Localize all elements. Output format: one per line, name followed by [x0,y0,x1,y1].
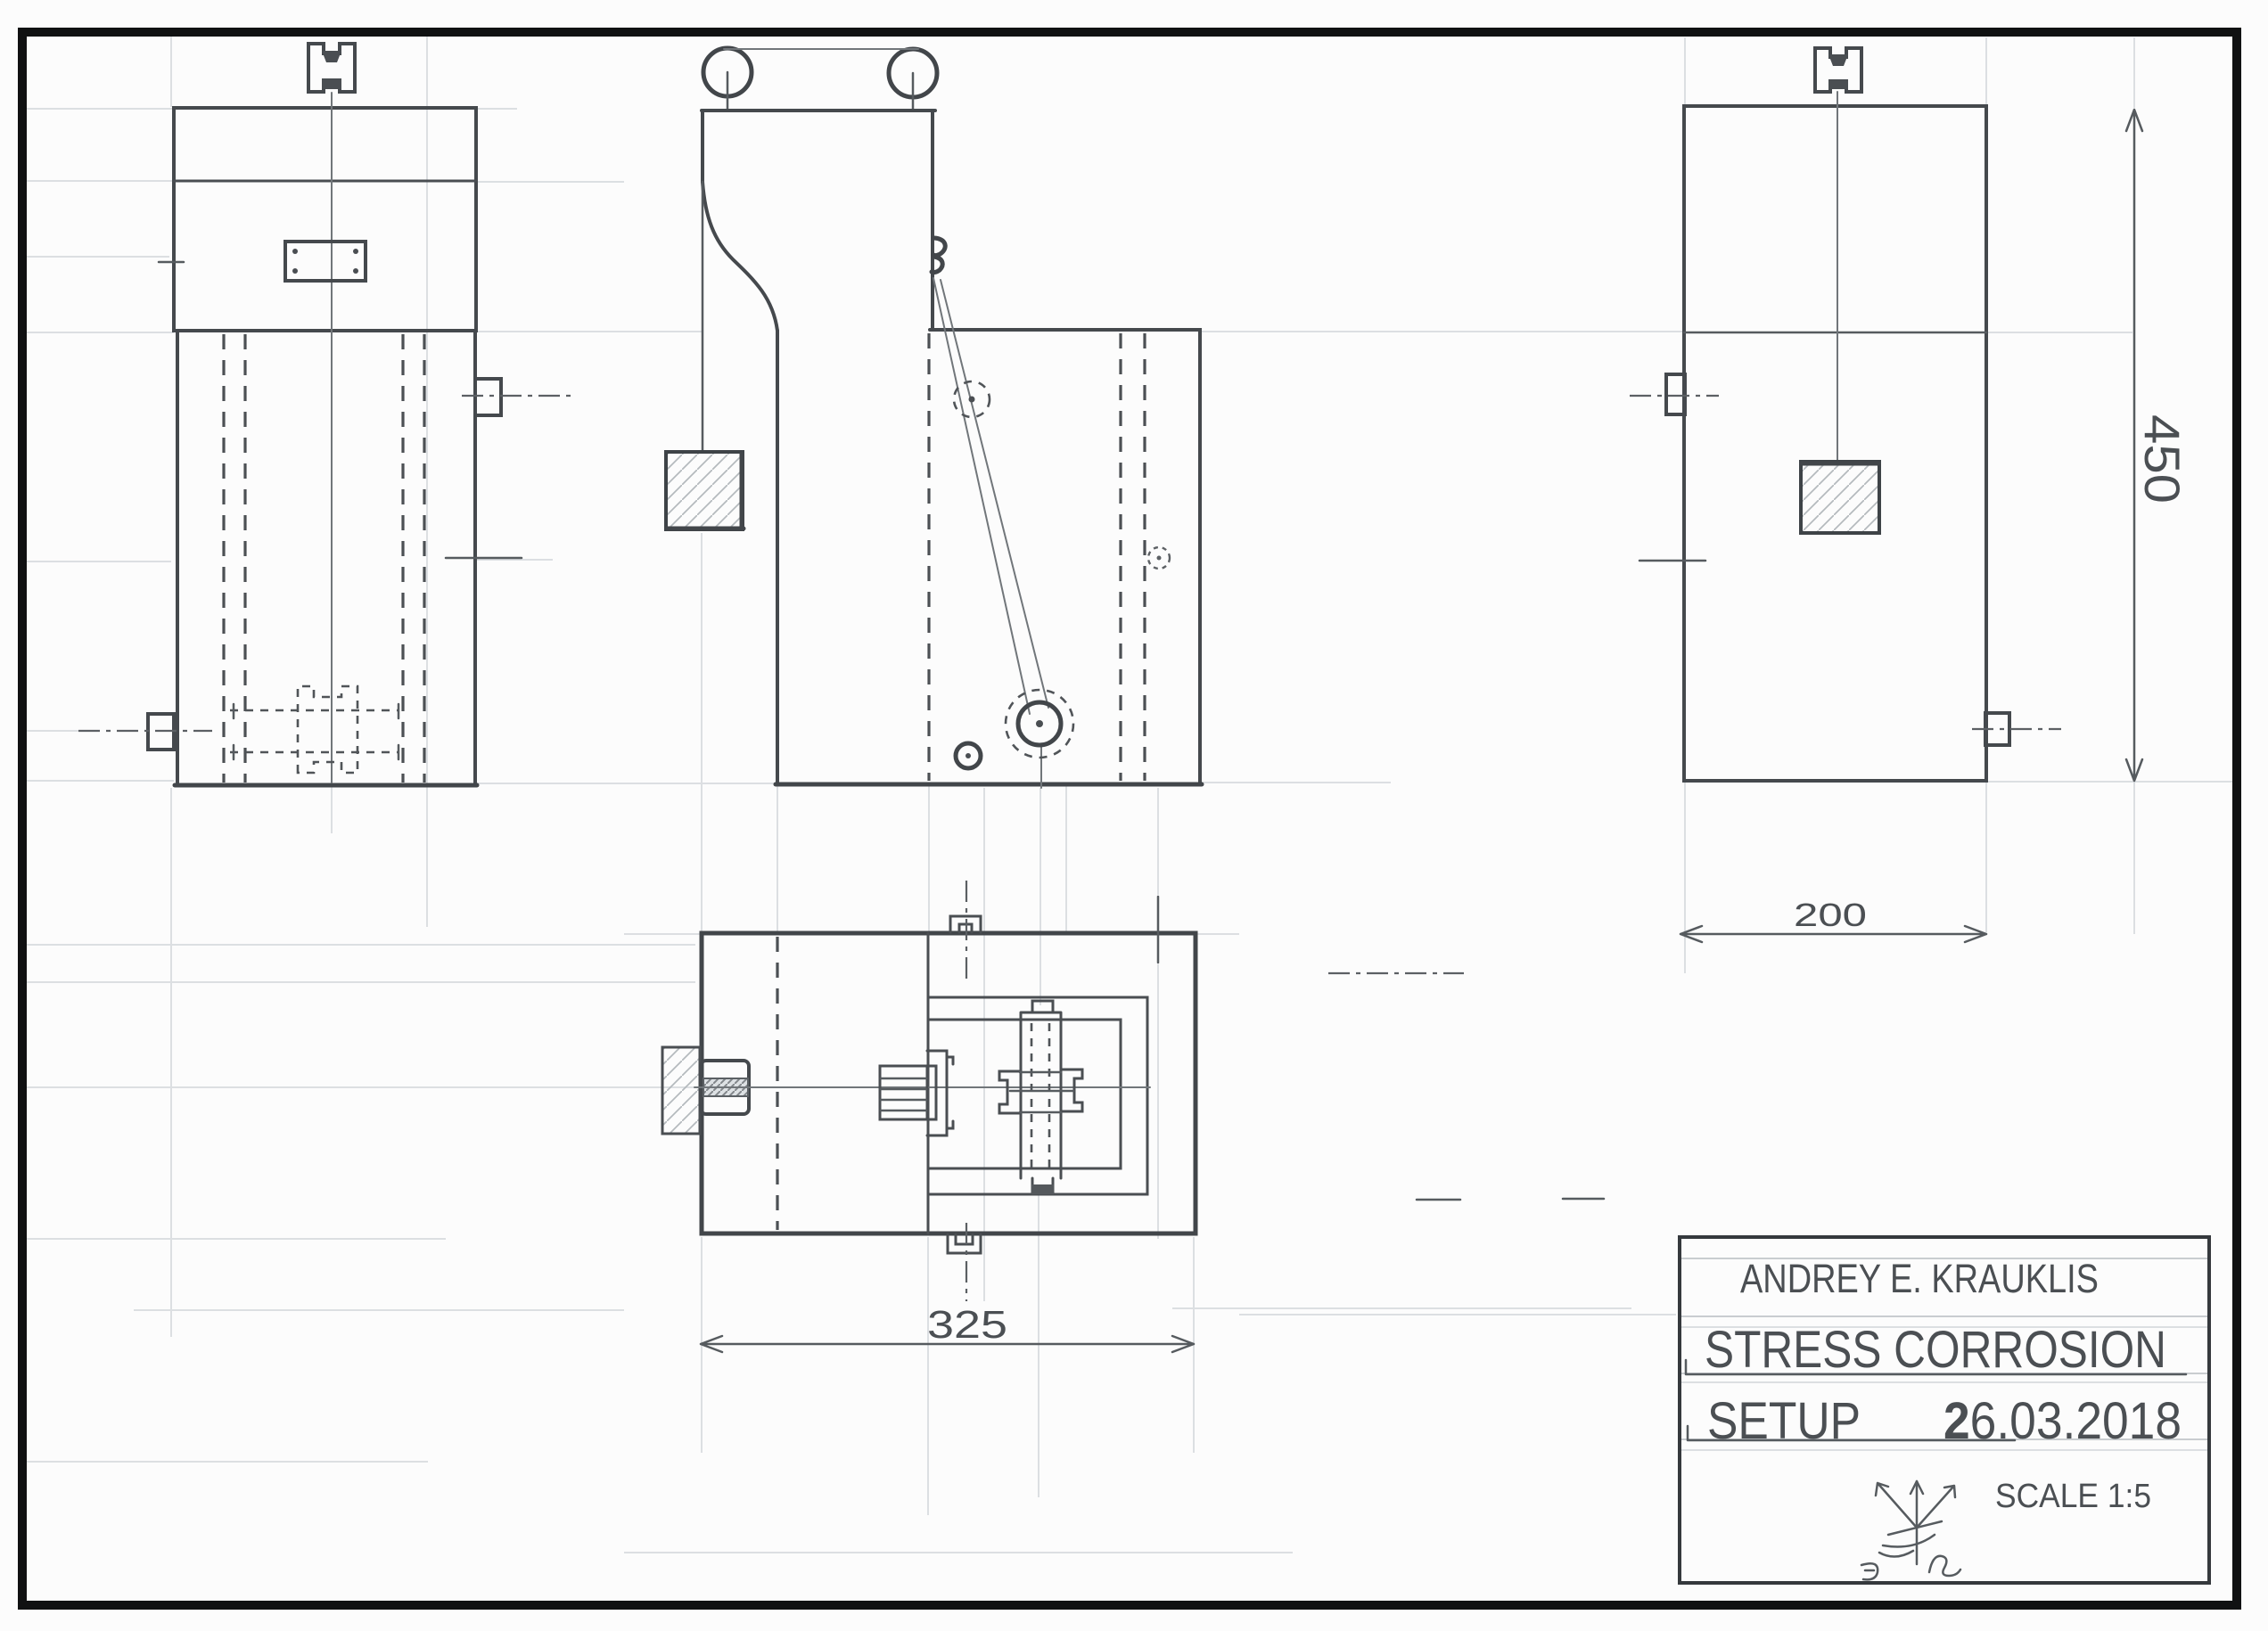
svg-text:325: 325 [927,1303,1007,1347]
svg-text:450: 450 [2134,414,2190,504]
svg-text:200: 200 [1794,897,1867,933]
svg-text:ANDREY E. KRAUKLIS: ANDREY E. KRAUKLIS [1740,1256,2099,1301]
svg-text:26.03.2018: 26.03.2018 [1943,1392,2182,1450]
svg-text:SCALE 1:5: SCALE 1:5 [1995,1478,2151,1515]
svg-text:SETUP: SETUP [1707,1392,1861,1450]
svg-text:STRESS CORROSION: STRESS CORROSION [1705,1321,2166,1379]
